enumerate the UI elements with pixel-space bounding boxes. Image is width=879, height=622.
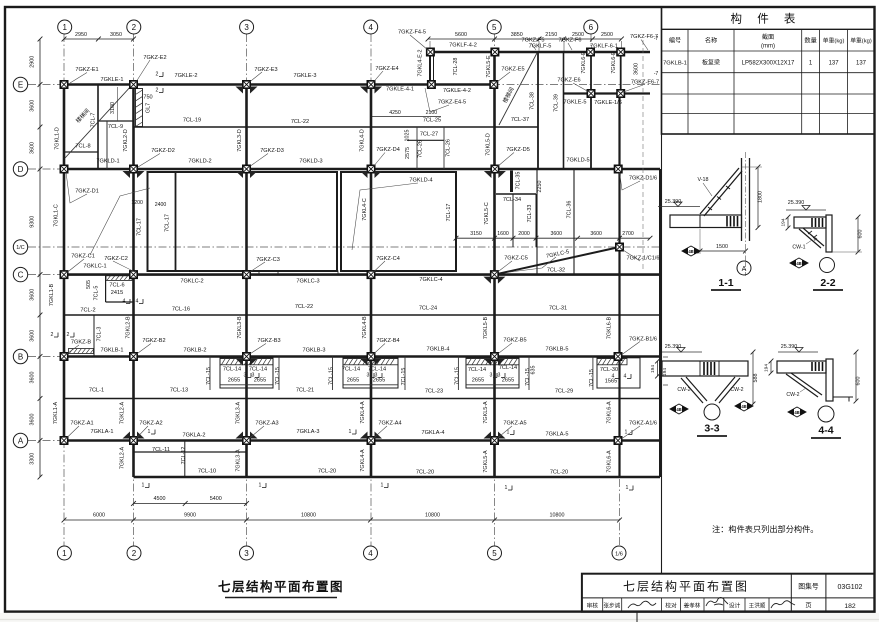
svg-text:7GKZ-E2: 7GKZ-E2 — [143, 55, 166, 61]
svg-text:7GKLE-5: 7GKLE-5 — [563, 100, 586, 106]
svg-text:姜孝林: 姜孝林 — [684, 602, 701, 610]
svg-text:7GKZ-C3: 7GKZ-C3 — [256, 257, 280, 263]
svg-text:7CL-12: 7CL-12 — [181, 447, 187, 465]
svg-text:7CL-15: 7CL-15 — [454, 367, 460, 385]
grid bubble 5 top — [487, 20, 501, 34]
grid line B — [28, 356, 660, 358]
column C-2 — [130, 271, 137, 278]
grid bubble B left — [13, 349, 27, 363]
svg-text:1025: 1025 — [405, 130, 411, 142]
leader lines — [70, 73, 87, 84]
svg-text:7GKZ-E6: 7GKZ-E6 — [557, 78, 580, 84]
svg-text:7GKL2-D: 7GKL2-D — [123, 129, 129, 152]
svg-text:C: C — [18, 271, 24, 280]
svg-text:3600: 3600 — [30, 330, 36, 342]
svg-text:7GKLC-1: 7GKLC-1 — [83, 264, 106, 270]
svg-text:7GKZ-D1/6: 7GKZ-D1/6 — [629, 176, 657, 182]
svg-text:7GKLA-2: 7GKLA-2 — [182, 433, 205, 439]
beam row A (7GKLA) — [64, 439, 660, 442]
column A-5 — [491, 437, 498, 444]
svg-text:7CL-14: 7CL-14 — [499, 365, 517, 371]
svg-text:7GKZ-A5: 7GKZ-A5 — [503, 421, 526, 427]
dim line 3180 vertical — [117, 87, 119, 121]
grid bubble 1 top — [58, 20, 72, 34]
svg-text:7CL-30: 7CL-30 — [600, 367, 618, 373]
hatch strip above B near col1 — [69, 349, 94, 354]
grid line A — [28, 440, 660, 442]
svg-text:7GKLA-5: 7GKLA-5 — [545, 432, 568, 438]
beam mid B-A (7CL-13/21 support) — [64, 398, 660, 400]
svg-text:3600: 3600 — [30, 414, 36, 426]
column E2-6 — [587, 90, 594, 97]
vertical beam x=563.5 (F to D) — [563, 52, 565, 169]
wall hatch strip below col 2 (GL7) — [136, 89, 143, 127]
plate stub above C left of col 3 — [243, 271, 259, 275]
svg-text:3150: 3150 — [470, 231, 482, 237]
grid bubble 1/6 bottom — [612, 546, 626, 560]
svg-text:7GKZ-B2: 7GKZ-B2 — [142, 338, 165, 344]
beam sub line below E (7CL-19 support) — [134, 126, 539, 128]
vertical beam x=430 (F to E) — [429, 52, 431, 85]
svg-text:CW-2: CW-2 — [786, 392, 799, 398]
svg-text:7CL-14: 7CL-14 — [342, 367, 360, 373]
svg-text:7GKL3-A: 7GKL3-A — [236, 402, 242, 425]
svg-text:7GKLB-3: 7GKLB-3 — [302, 348, 325, 354]
big panel rectangle R1 (7GKLD-4 bay) — [148, 172, 338, 271]
svg-text:4: 4 — [123, 299, 126, 305]
svg-text:7GKZ-E6-7: 7GKZ-E6-7 — [631, 80, 659, 86]
svg-text:7GKZ-E4-5: 7GKZ-E4-5 — [438, 100, 466, 106]
svg-text:7CL-5: 7CL-5 — [93, 286, 99, 301]
svg-text:7GKZ-A1/6: 7GKZ-A1/6 — [629, 421, 657, 427]
svg-text:7GKL4-C: 7GKL4-C — [362, 198, 368, 221]
svg-text:3: 3 — [252, 373, 255, 379]
slab opening box below B at x=343 — [343, 358, 398, 388]
svg-text:10800: 10800 — [301, 513, 316, 519]
svg-text:CW-1: CW-1 — [792, 245, 805, 251]
title block — [582, 574, 875, 612]
svg-text:7CL-32: 7CL-32 — [547, 268, 565, 274]
svg-text:7CL-14: 7CL-14 — [468, 367, 486, 373]
svg-text:7CL-6: 7CL-6 — [109, 283, 124, 289]
svg-text:7CL-29: 7CL-29 — [555, 389, 573, 395]
detail 4-4 — [764, 344, 862, 438]
svg-text:10800: 10800 — [550, 513, 565, 519]
svg-text:校对: 校对 — [665, 602, 677, 610]
svg-text:1: 1 — [349, 429, 352, 435]
svg-text:7GKZ-C1: 7GKZ-C1 — [71, 254, 95, 260]
svg-text:7GKLA-1: 7GKLA-1 — [90, 429, 113, 435]
right edge beam — [659, 169, 661, 477]
svg-text:505: 505 — [86, 280, 92, 289]
signature squiggles — [628, 601, 656, 608]
svg-text:4250: 4250 — [389, 110, 401, 116]
haunch brackets at main joints — [236, 87, 244, 94]
svg-text:4: 4 — [368, 549, 373, 558]
grid bubble 3 bottom — [240, 546, 254, 560]
svg-text:7GKL4-D: 7GKL4-D — [360, 129, 366, 152]
svg-text:7GKL2-A: 7GKL2-A — [120, 447, 126, 470]
svg-text:25.390: 25.390 — [665, 199, 682, 205]
svg-text:7CL-38: 7CL-38 — [530, 92, 536, 110]
svg-text:审核: 审核 — [586, 602, 598, 610]
column A-1 — [60, 437, 67, 444]
svg-text:1600: 1600 — [497, 231, 509, 237]
grid bubble 1/C left — [13, 240, 27, 254]
svg-text:7GKLD-2: 7GKLD-2 — [188, 159, 211, 165]
svg-text:7GKL1-B: 7GKL1-B — [49, 284, 55, 307]
svg-text:E: E — [18, 80, 23, 89]
svg-text:B: B — [18, 352, 23, 361]
column E-2 — [130, 81, 137, 88]
beam row E right sub (7GKLE-5 / 7GKLE-1/6) — [564, 92, 651, 94]
svg-text:137: 137 — [856, 61, 867, 67]
inner beam x=175.5 in R1 — [175, 172, 177, 271]
svg-text:7CL-19: 7CL-19 — [183, 118, 201, 124]
grid line D — [28, 168, 660, 170]
column D-5 — [491, 165, 498, 172]
svg-text:2: 2 — [132, 549, 137, 558]
column F-1/6 — [617, 48, 624, 55]
interior dim line 3150/1600/2000/3600/3600/2700 — [456, 237, 650, 239]
svg-text:3: 3 — [244, 23, 249, 32]
diagonal beam 7GKLC-5 — [495, 247, 620, 275]
svg-text:635: 635 — [531, 366, 537, 375]
svg-text:3600: 3600 — [30, 372, 36, 384]
beam row B (7GKLB) — [64, 355, 660, 358]
svg-text:4: 4 — [624, 374, 627, 380]
column D-2 — [130, 165, 137, 172]
svg-text:2100: 2100 — [426, 110, 438, 116]
grid bubble 6 top — [584, 20, 598, 34]
svg-text:7CL-9: 7CL-9 — [108, 124, 123, 130]
svg-text:2: 2 — [156, 88, 159, 94]
svg-text:7CL-1: 7CL-1 — [89, 388, 104, 394]
svg-text:2655: 2655 — [502, 378, 514, 384]
top dimension chain right — [428, 38, 621, 40]
svg-text:3: 3 — [244, 373, 247, 379]
grid line 4 — [370, 34, 372, 546]
beam 7CL-9 support line — [98, 120, 134, 122]
7CL-27 bay lines — [407, 139, 444, 141]
beam row D (7GKLD) — [64, 168, 660, 171]
svg-text:1: 1 — [148, 429, 151, 435]
plate strip above C between 3 and 4 — [278, 271, 338, 275]
svg-text:7GKLE-3: 7GKLE-3 — [293, 73, 316, 79]
svg-text:编号: 编号 — [669, 37, 681, 45]
svg-text:7CL-39: 7CL-39 — [553, 94, 559, 112]
top dimension chain left (2950/3050) — [64, 38, 134, 40]
detail 1-1 — [658, 152, 764, 290]
svg-text:7CL-22: 7CL-22 — [291, 119, 309, 125]
svg-text:7GKLE-2: 7GKLE-2 — [174, 73, 197, 79]
svg-text:1: 1 — [62, 549, 67, 558]
grid bubble 4 bottom — [364, 546, 378, 560]
svg-text:2655: 2655 — [228, 378, 240, 384]
svg-text:2250: 2250 — [537, 181, 543, 193]
svg-text:4: 4 — [368, 23, 373, 32]
column line beam on grid 1 — [63, 85, 66, 441]
svg-text:7GKL6-E: 7GKL6-E — [581, 51, 587, 74]
svg-text:7GKLB-5: 7GKLB-5 — [545, 347, 568, 353]
column line beam on grid 2 — [132, 85, 135, 478]
svg-text:1500: 1500 — [716, 244, 728, 250]
svg-text:7CL-26: 7CL-26 — [445, 139, 451, 157]
svg-text:7GKZ-D4: 7GKZ-D4 — [376, 147, 400, 153]
svg-text:构 件 表: 构 件 表 — [731, 12, 802, 26]
svg-text:1: 1 — [625, 430, 628, 436]
svg-text:7GKL6-A: 7GKL6-A — [606, 401, 612, 424]
svg-text:182: 182 — [844, 603, 856, 610]
svg-text:7GKL4-B: 7GKL4-B — [362, 316, 368, 339]
beam row E (7GKLE) — [64, 83, 495, 86]
joist vertical x=536 — [535, 194, 537, 247]
svg-text:7GKLB-2: 7GKLB-2 — [183, 348, 206, 354]
beam bottom edge (7CL-10/20) — [134, 476, 661, 478]
beam mid C-B (7CL-16/22 support) — [64, 314, 660, 316]
stair diagonal bay right (near 5) — [499, 53, 537, 125]
column B-5 — [491, 353, 498, 360]
svg-text:3180: 3180 — [110, 102, 116, 114]
svg-text:03G102: 03G102 — [838, 584, 863, 591]
thin extension line x=643 — [642, 40, 644, 270]
svg-text:7GKZ-A3: 7GKZ-A3 — [255, 421, 278, 427]
svg-text:A: A — [18, 436, 24, 445]
grid bubble E left — [13, 77, 27, 91]
svg-text:1: 1 — [62, 23, 67, 32]
svg-text:7CL-28: 7CL-28 — [453, 58, 459, 76]
svg-text:7CL-10: 7CL-10 — [198, 469, 216, 475]
vertical beam x=591 (F to D) — [590, 52, 592, 169]
bottom main dimension chain — [64, 519, 620, 521]
svg-text:1: 1 — [142, 483, 145, 489]
svg-text:7GKZ-B5: 7GKZ-B5 — [503, 338, 526, 344]
grid line E (horizontal axis) — [28, 84, 660, 86]
svg-text:7CL-11: 7CL-11 — [152, 447, 170, 453]
column E-4a — [428, 81, 435, 88]
column F-5 — [491, 48, 498, 55]
svg-text:3600: 3600 — [30, 142, 36, 154]
big panel rectangle R2 — [341, 172, 456, 271]
svg-text:4B: 4B — [676, 407, 681, 412]
svg-text:7GKL5-D: 7GKL5-D — [485, 133, 491, 156]
svg-text:1: 1 — [381, 483, 384, 489]
svg-text:6000: 6000 — [93, 513, 105, 519]
svg-text:7GKLD-1: 7GKLD-1 — [96, 159, 119, 165]
svg-text:7GKL1-C: 7GKL1-C — [53, 204, 59, 227]
svg-text:7GKZ-D3: 7GKZ-D3 — [260, 148, 284, 154]
svg-text:7GKL4-A: 7GKL4-A — [360, 449, 366, 472]
svg-text:137: 137 — [829, 61, 840, 67]
svg-text:7GKZ-B3: 7GKZ-B3 — [257, 338, 280, 344]
column B-4 — [367, 353, 374, 360]
grid bubble 1 bottom — [57, 546, 71, 560]
column E-4 — [367, 81, 374, 88]
svg-text:7GKZ-D5: 7GKZ-D5 — [506, 147, 530, 153]
svg-text:7CL-15: 7CL-15 — [589, 369, 595, 387]
svg-text:图集号: 图集号 — [798, 582, 819, 591]
svg-text:7GKLD-5: 7GKLD-5 — [566, 158, 589, 164]
svg-text:7GKZ-B: 7GKZ-B — [71, 340, 91, 346]
svg-text:7GKL3-A: 7GKL3-A — [236, 449, 242, 472]
svg-text:4500: 4500 — [154, 496, 166, 502]
svg-text:7CL-22: 7CL-22 — [295, 304, 313, 310]
joist vertical x=107 — [106, 121, 108, 169]
column E-5 — [490, 81, 497, 88]
column line beam on grid 3 — [245, 85, 248, 478]
svg-text:7GKLC-2: 7GKLC-2 — [180, 279, 203, 285]
column C-1 — [60, 271, 67, 278]
column D-3 — [243, 165, 250, 172]
7CL-15 joist verticals flanking slab boxes — [209, 357, 211, 391]
svg-text:注：构件表只列出部分构件。: 注：构件表只列出部分构件。 — [712, 524, 818, 534]
svg-text:3: 3 — [244, 549, 249, 558]
svg-text:7GKZ-E4: 7GKZ-E4 — [375, 66, 398, 72]
svg-text:7GKL5-A: 7GKL5-A — [483, 401, 489, 424]
column B-1 — [60, 353, 67, 360]
column F-6 — [587, 48, 594, 55]
svg-text:7CL-17: 7CL-17 — [136, 218, 142, 236]
column E-1 — [60, 81, 67, 88]
svg-text:194: 194 — [650, 365, 656, 373]
svg-text:LP582X300X12X17: LP582X300X12X17 — [742, 61, 795, 67]
svg-text:7GKZ-B4: 7GKZ-B4 — [376, 338, 399, 344]
column E-3 — [243, 81, 250, 88]
column D-1 — [60, 165, 67, 172]
svg-text:7GKL1-A: 7GKL1-A — [53, 402, 59, 425]
column line beam on grid 4 — [370, 85, 373, 478]
column A-1/6 — [614, 437, 621, 444]
svg-text:CW-2: CW-2 — [730, 387, 743, 393]
svg-text:2655: 2655 — [472, 378, 484, 384]
column line beam on grid 5 — [493, 52, 496, 477]
svg-text:7CL-7: 7CL-7 — [91, 113, 97, 128]
svg-text:4B: 4B — [796, 261, 801, 266]
svg-text:2: 2 — [132, 23, 137, 32]
column C-5 — [491, 271, 498, 278]
column E2-1/6 — [617, 90, 624, 97]
column C-3 — [243, 271, 250, 278]
svg-text:7GKLB-4: 7GKLB-4 — [426, 347, 449, 353]
svg-text:3600: 3600 — [590, 231, 602, 237]
svg-text:600: 600 — [858, 230, 864, 239]
svg-text:7GKL6-E: 7GKL6-E — [611, 51, 617, 74]
svg-text:7GKLA-3: 7GKLA-3 — [296, 429, 319, 435]
svg-text:7CL-37: 7CL-37 — [511, 117, 529, 123]
svg-text:7GKZ-E5: 7GKZ-E5 — [501, 67, 524, 73]
svg-text:名称: 名称 — [705, 37, 717, 45]
grid line 1/6 — [619, 160, 621, 546]
svg-text:2: 2 — [67, 332, 70, 338]
column D-4 — [367, 165, 374, 172]
svg-text:25.390: 25.390 — [788, 200, 805, 206]
svg-text:4-4: 4-4 — [818, 425, 833, 437]
svg-text:1200: 1200 — [131, 200, 143, 206]
svg-text:3: 3 — [375, 373, 378, 379]
svg-text:2655: 2655 — [347, 378, 359, 384]
svg-text:7GKZ-C5: 7GKZ-C5 — [504, 256, 528, 262]
svg-text:7GKL3-D: 7GKL3-D — [237, 129, 243, 152]
svg-text:-7: -7 — [654, 71, 659, 77]
svg-text:7GKL5-E: 7GKL5-E — [486, 55, 492, 78]
svg-text:25.390: 25.390 — [781, 344, 798, 350]
svg-text:7GKL3-B: 7GKL3-B — [237, 316, 243, 339]
svg-text:7CL-21: 7CL-21 — [296, 388, 314, 394]
detail 3-3 — [650, 344, 759, 436]
svg-text:7GKL5-A: 7GKL5-A — [483, 450, 489, 473]
svg-text:王洪顺: 王洪顺 — [749, 602, 766, 610]
svg-text:7GKLD-4: 7GKLD-4 — [409, 178, 432, 184]
svg-text:5400: 5400 — [210, 496, 222, 502]
svg-text:7GKZ-F4-5: 7GKZ-F4-5 — [398, 30, 426, 36]
svg-text:张步诚: 张步诚 — [603, 602, 620, 610]
svg-text:D: D — [18, 165, 24, 174]
svg-text:3600: 3600 — [30, 100, 36, 112]
svg-text:数量: 数量 — [804, 37, 816, 45]
svg-text:7GKL6-B: 7GKL6-B — [606, 317, 612, 340]
grid bubble 4 top — [364, 20, 378, 34]
svg-text:2000: 2000 — [518, 231, 530, 237]
svg-text:7CL-36: 7CL-36 — [567, 201, 573, 219]
svg-text:7GKZ-1/C1/6: 7GKZ-1/C1/6 — [627, 256, 660, 262]
svg-text:GL7: GL7 — [145, 103, 151, 113]
svg-text:588: 588 — [753, 374, 759, 383]
column B-3 — [243, 353, 250, 360]
svg-text:1/C: 1/C — [16, 245, 24, 251]
svg-text:7GKLF-4-2: 7GKLF-4-2 — [449, 43, 477, 49]
svg-text:2700: 2700 — [622, 231, 634, 237]
svg-text:7GKZ-D2: 7GKZ-D2 — [151, 148, 175, 154]
svg-text:7CL-2: 7CL-2 — [80, 308, 95, 314]
svg-text:2950: 2950 — [75, 32, 87, 38]
grid line 2 — [133, 34, 135, 546]
7CL-5/7CL-6 box below C — [105, 275, 107, 302]
joist 7CL-3 vertical — [93, 315, 95, 357]
svg-text:7GKLC-4: 7GKLC-4 — [419, 277, 442, 283]
svg-text:4: 4 — [612, 374, 615, 380]
svg-text:7GKLB-1: 7GKLB-1 — [100, 348, 123, 354]
svg-text:7GKZ-D1: 7GKZ-D1 — [75, 189, 99, 195]
svg-text:1-1: 1-1 — [718, 277, 733, 289]
svg-text:7CL-17: 7CL-17 — [446, 204, 452, 222]
svg-text:7GKZ-A2: 7GKZ-A2 — [139, 421, 162, 427]
svg-text:-7: -7 — [654, 36, 659, 42]
svg-text:3600: 3600 — [551, 231, 563, 237]
slab opening box below B at x=220 — [220, 358, 273, 388]
column B-1/6 — [614, 353, 621, 360]
joist 7CL-12 vertical — [184, 441, 186, 478]
slab opening box below B at x=466 — [466, 358, 519, 388]
column A-2 — [130, 437, 137, 444]
svg-text:7CL-25: 7CL-25 — [423, 118, 441, 124]
svg-text:4: 4 — [136, 299, 139, 305]
svg-text:7CL-23: 7CL-23 — [425, 389, 443, 395]
svg-text:3600: 3600 — [634, 63, 640, 75]
svg-text:3300: 3300 — [30, 453, 36, 465]
svg-text:194: 194 — [764, 364, 770, 372]
svg-text:7GKZ-C2: 7GKZ-C2 — [104, 256, 128, 262]
svg-text:1: 1 — [259, 483, 262, 489]
svg-text:2415: 2415 — [111, 290, 123, 296]
svg-text:7GKLC-3: 7GKLC-3 — [296, 279, 319, 285]
svg-text:7CL-20: 7CL-20 — [318, 469, 336, 475]
svg-text:页: 页 — [805, 603, 811, 610]
vertical beam x=620.7 (F to E2) — [620, 52, 622, 94]
grid line 1 (vertical axis) — [63, 34, 65, 546]
svg-text:5: 5 — [492, 23, 497, 32]
svg-text:7CL-20: 7CL-20 — [550, 470, 568, 476]
svg-text:1: 1 — [626, 485, 629, 491]
